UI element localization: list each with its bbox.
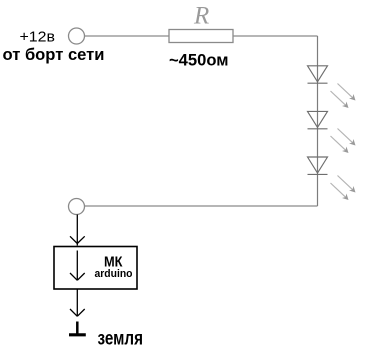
svg-text:земля: земля — [98, 329, 144, 350]
svg-text:R: R — [193, 3, 209, 30]
svg-text:~450ом: ~450ом — [169, 51, 229, 70]
svg-text:arduino: arduino — [95, 268, 133, 280]
svg-text:от борт сети: от борт сети — [3, 45, 105, 64]
svg-text:+12в: +12в — [20, 29, 56, 46]
